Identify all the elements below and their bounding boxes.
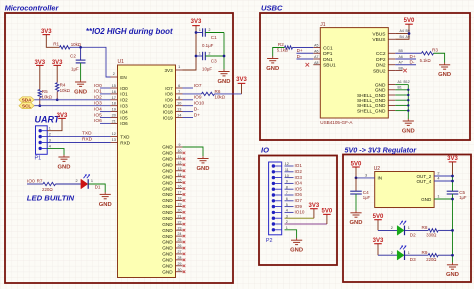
J1 pin SHELL_GND (S3) xyxy=(357,103,395,109)
svg-text:1: 1 xyxy=(199,51,201,55)
svg-text:3V3: 3V3 xyxy=(52,60,63,66)
wire IO8 to R6 xyxy=(183,93,202,95)
svg-text:15: 15 xyxy=(112,84,116,88)
svg-text:A6: A6 xyxy=(399,55,403,59)
wire IO1 xyxy=(100,93,111,95)
U1 pin IO6 (pin 21) xyxy=(111,119,129,126)
no-connect SBU1 xyxy=(306,63,310,67)
J1 pin CC1 (A5) xyxy=(313,44,333,52)
wire R3 to ground xyxy=(434,53,445,63)
wire R9 to gnd rail xyxy=(438,254,452,256)
svg-text:10: 10 xyxy=(178,149,182,153)
svg-text:1: 1 xyxy=(49,127,51,131)
svg-text:IO3: IO3 xyxy=(120,104,128,109)
svg-text:14: 14 xyxy=(177,114,181,118)
svg-text:220Ω: 220Ω xyxy=(42,187,53,192)
svg-text:27: 27 xyxy=(178,250,182,254)
svg-text:P1: P1 xyxy=(35,156,42,162)
wire R6 to 3V3 xyxy=(215,93,242,95)
connector P2 xyxy=(266,162,289,244)
svg-text:13: 13 xyxy=(112,138,116,142)
svg-text:C2: C2 xyxy=(70,54,76,59)
resistor R8 330 xyxy=(428,229,438,232)
svg-text:1: 1 xyxy=(437,195,439,199)
svg-text:IO2: IO2 xyxy=(120,98,128,103)
svg-text:IO19: IO19 xyxy=(163,115,173,120)
svg-text:3V3: 3V3 xyxy=(373,238,384,244)
wire 3V3 rail to U1 pin1 xyxy=(183,26,197,70)
wire IO18 to D- xyxy=(183,111,194,113)
svg-text:14: 14 xyxy=(178,173,182,177)
svg-text:3V3: 3V3 xyxy=(236,77,247,83)
wire P1 pin1 to 3V3 xyxy=(47,118,62,130)
node C1 junction xyxy=(195,31,198,34)
svg-text:23: 23 xyxy=(178,226,182,230)
svg-text:IO0: IO0 xyxy=(27,178,35,184)
svg-text:2: 2 xyxy=(113,72,115,76)
svg-text:IO: IO xyxy=(261,145,269,154)
svg-text:GND: GND xyxy=(162,186,173,191)
svg-text:B9: B9 xyxy=(406,29,410,33)
svg-text:R5: R5 xyxy=(42,89,48,94)
svg-text:IO6: IO6 xyxy=(295,192,303,197)
svg-text:R6: R6 xyxy=(215,89,221,94)
svg-text:21: 21 xyxy=(112,119,116,123)
svg-text:SCL: SCL xyxy=(22,104,31,109)
wire P2 IO5 xyxy=(285,188,294,190)
svg-text:D+: D+ xyxy=(410,54,416,59)
wire R2 to ground xyxy=(273,48,285,57)
wire IO10 xyxy=(183,105,194,107)
svg-text:CC1: CC1 xyxy=(323,45,333,51)
resistor R1 10k xyxy=(60,46,71,49)
svg-text:2: 2 xyxy=(49,133,51,137)
svg-text:D-: D- xyxy=(410,60,415,65)
U1 pin IO2 (pin 17) xyxy=(111,96,129,103)
svg-text:GND: GND xyxy=(162,240,173,245)
U1 pin IO4 (pin 19) xyxy=(111,108,129,115)
svg-text:10: 10 xyxy=(177,102,181,106)
power 3V3 (P1) xyxy=(57,113,68,119)
svg-text:A7: A7 xyxy=(314,55,318,59)
svg-text:17: 17 xyxy=(112,96,116,100)
wire IO0 xyxy=(100,87,111,89)
wire R7 to D1 xyxy=(56,183,81,185)
wire P2 3V3 xyxy=(285,217,314,219)
svg-text:R9: R9 xyxy=(422,250,428,255)
U1 pin 3V3 (pin 1) xyxy=(165,65,183,73)
svg-text:U1: U1 xyxy=(118,59,125,65)
svg-text:18: 18 xyxy=(178,197,182,201)
svg-text:IO5: IO5 xyxy=(120,115,128,120)
U1 pin IO3 (pin 18) xyxy=(111,102,129,109)
svg-text:GND: GND xyxy=(162,180,173,185)
svg-text:Microcontroller: Microcontroller xyxy=(5,3,60,12)
svg-text:GND: GND xyxy=(162,228,173,233)
wire P2 IO7 xyxy=(285,200,294,202)
svg-text:15: 15 xyxy=(178,179,182,183)
svg-text:1: 1 xyxy=(91,179,93,183)
svg-text:GND: GND xyxy=(162,145,173,150)
wire IO5 xyxy=(100,117,111,119)
svg-text:3V3: 3V3 xyxy=(191,19,202,25)
wire IO19 to D+ xyxy=(183,117,194,119)
wire U2 GND (pin 1) xyxy=(434,198,452,200)
wire C2 to ground xyxy=(80,63,82,80)
J1 pin DN2 xyxy=(376,63,395,69)
microcontroller U1 xyxy=(118,59,176,277)
svg-text:IO9: IO9 xyxy=(165,98,173,103)
svg-text:D3: D3 xyxy=(410,257,416,262)
wire U2 OUT_2 (pin 2) xyxy=(434,175,452,177)
svg-text:12: 12 xyxy=(178,161,182,165)
wire P2 IO10 xyxy=(285,211,294,213)
ground GND (R3) xyxy=(438,63,451,79)
J1 pin GND (B1) xyxy=(375,88,395,94)
svg-text:R1: R1 xyxy=(53,41,59,46)
wire 3V3 to R1 xyxy=(46,35,59,48)
svg-text:B1: B1 xyxy=(398,85,402,89)
svg-text:2: 2 xyxy=(209,51,211,55)
section box 5V0 -> 3V3 Regulator xyxy=(343,155,471,283)
svg-text:2: 2 xyxy=(76,179,78,183)
svg-text:IO2: IO2 xyxy=(94,95,102,101)
J1 pin GND (A1) xyxy=(375,82,395,88)
power 3V3 (U2 out) xyxy=(447,156,458,162)
svg-text:5V0 -> 3V3 Regulator: 5V0 -> 3V3 Regulator xyxy=(345,145,418,154)
svg-text:3V3: 3V3 xyxy=(165,68,174,73)
svg-text:R7: R7 xyxy=(37,178,43,183)
svg-text:EN: EN xyxy=(120,75,126,80)
svg-text:SBU1: SBU1 xyxy=(323,63,336,69)
LED D2 xyxy=(397,226,404,236)
svg-text:A8: A8 xyxy=(314,61,318,65)
svg-text:GND: GND xyxy=(421,197,432,202)
svg-text:5V0: 5V0 xyxy=(322,209,333,215)
svg-text:SHELL_GND: SHELL_GND xyxy=(357,108,386,114)
ground GND (C2) xyxy=(74,80,87,96)
resistor R4 10k xyxy=(56,65,58,82)
svg-text:IO4: IO4 xyxy=(295,181,303,186)
svg-text:GND: GND xyxy=(375,88,386,94)
svg-text:10kΩ: 10kΩ xyxy=(215,94,226,99)
svg-text:21: 21 xyxy=(178,214,182,218)
resistor R7 220 xyxy=(27,183,43,185)
node OUT_2 junction xyxy=(451,175,454,178)
ground GND (P2) xyxy=(290,238,303,254)
wire 5V0 to D2 xyxy=(377,220,379,231)
node C3 junction xyxy=(195,55,198,58)
svg-text:B8: B8 xyxy=(399,66,403,70)
svg-text:USBC: USBC xyxy=(261,3,283,12)
power 3V3 (R4) xyxy=(52,60,63,66)
svg-text:GND: GND xyxy=(162,204,173,209)
wire P2 IO1 xyxy=(285,165,294,167)
wire SCL to IO3 xyxy=(34,105,110,107)
svg-text:D+: D+ xyxy=(297,48,303,53)
svg-text:22: 22 xyxy=(178,220,182,224)
usb connector J1 xyxy=(320,22,388,125)
J1 pin DP2 xyxy=(376,57,395,63)
ground GND (C1 C3) xyxy=(218,69,231,85)
svg-text:5V0: 5V0 xyxy=(404,18,415,24)
wire SDA to IO2 xyxy=(34,99,110,101)
svg-text:2: 2 xyxy=(437,172,439,176)
wire 3V3 to D3 xyxy=(377,244,379,256)
svg-text:IO9: IO9 xyxy=(295,204,303,209)
svg-text:30: 30 xyxy=(178,268,182,272)
U1 pin IO19 (pin 14) xyxy=(163,114,183,121)
node OUT_4 junction xyxy=(451,180,454,183)
U1 pin IO18 (pin 13) xyxy=(163,108,183,115)
svg-text:28: 28 xyxy=(178,256,182,260)
svg-text:GND: GND xyxy=(375,82,386,88)
svg-text:SBU2: SBU2 xyxy=(373,68,386,74)
svg-text:A4: A4 xyxy=(400,29,404,33)
svg-text:220Ω: 220Ω xyxy=(426,257,436,262)
svg-text:RXD: RXD xyxy=(82,137,93,143)
svg-text:A7: A7 xyxy=(399,61,403,65)
section box USBC xyxy=(260,13,470,140)
svg-text:GND: GND xyxy=(218,79,231,85)
wire 5V0 to U2 IN (pin 3) xyxy=(355,167,357,178)
wire CC2 to R3 xyxy=(395,52,421,54)
svg-text:D2: D2 xyxy=(410,232,416,237)
node R5/SCL junction xyxy=(38,104,41,107)
svg-text:2: 2 xyxy=(391,226,393,230)
svg-text:GND: GND xyxy=(162,252,173,257)
svg-text:CC2: CC2 xyxy=(376,51,386,57)
svg-text:D+: D+ xyxy=(194,112,200,118)
svg-text:7: 7 xyxy=(178,90,180,94)
svg-text:3: 3 xyxy=(365,174,367,178)
LED D1 xyxy=(81,179,88,189)
wire CC1 to R2 xyxy=(293,47,314,49)
svg-text:DP2: DP2 xyxy=(376,57,386,63)
power 5V0 (P2) xyxy=(322,209,333,215)
svg-text:D-: D- xyxy=(194,106,199,112)
svg-text:GND: GND xyxy=(162,210,173,215)
wire R1 to EN xyxy=(70,47,111,77)
svg-text:330Ω: 330Ω xyxy=(426,232,436,237)
power 3V3 (R6) xyxy=(236,77,247,83)
node C4 junction xyxy=(355,177,358,180)
J1 pin VBUS xyxy=(372,37,395,43)
ground GND (D1) xyxy=(99,192,112,208)
wire P2 IO4 xyxy=(285,182,294,184)
svg-text:GND: GND xyxy=(162,174,173,179)
svg-text:20: 20 xyxy=(178,208,182,212)
svg-text:C3: C3 xyxy=(211,59,217,64)
svg-text:IN: IN xyxy=(378,176,383,181)
svg-text:GND: GND xyxy=(266,66,279,72)
node U2 gnd junction xyxy=(451,198,454,201)
U1 pin IO5 (pin 20) xyxy=(111,114,129,121)
net port SDA xyxy=(19,97,34,103)
regulator U2 xyxy=(374,166,434,207)
svg-text:IO1: IO1 xyxy=(120,92,128,97)
U1 pin IO1 (pin 16) xyxy=(111,90,129,97)
capacitor C1 0.1uF xyxy=(196,32,203,34)
J1 pin DP1 (A6) xyxy=(313,49,332,57)
svg-text:LED BUILTIN: LED BUILTIN xyxy=(27,193,75,202)
svg-text:1μF: 1μF xyxy=(459,195,467,200)
wire 3V3 output rail xyxy=(452,162,454,176)
power 5V0 (D2) xyxy=(373,214,384,220)
svg-text:5V0: 5V0 xyxy=(351,161,362,167)
power 3V3 (U1 supply) xyxy=(191,19,202,26)
svg-text:DN1: DN1 xyxy=(323,57,333,63)
wire TXD xyxy=(47,136,110,138)
svg-text:IO3: IO3 xyxy=(295,175,303,180)
svg-text:GND: GND xyxy=(197,166,210,172)
svg-text:12: 12 xyxy=(112,132,116,136)
svg-text:DP1: DP1 xyxy=(323,51,333,57)
svg-text:GND: GND xyxy=(402,128,415,134)
node R1/C2 junction xyxy=(79,46,82,49)
svg-text:A9: A9 xyxy=(406,35,410,39)
svg-text:4: 4 xyxy=(49,144,51,148)
ground GND (R2) xyxy=(266,56,279,72)
svg-text:R8: R8 xyxy=(422,225,428,230)
svg-text:IO7: IO7 xyxy=(295,198,303,203)
svg-text:GND: GND xyxy=(162,198,173,203)
power 3V3 (D3) xyxy=(373,238,384,244)
power 3V3 (P2) xyxy=(309,203,320,209)
wire IO4 xyxy=(100,111,111,113)
svg-text:A5: A5 xyxy=(314,44,318,48)
wire IO9 xyxy=(183,99,194,101)
LED D3 xyxy=(397,250,404,260)
svg-text:P2: P2 xyxy=(266,238,273,244)
svg-text:GND: GND xyxy=(438,72,451,78)
svg-text:GND: GND xyxy=(162,151,173,156)
svg-text:13: 13 xyxy=(177,108,181,112)
U1 pin IO9 (pin 8) xyxy=(165,96,182,103)
svg-text:RXD: RXD xyxy=(120,140,130,145)
svg-text:IO7: IO7 xyxy=(165,86,173,91)
svg-text:1: 1 xyxy=(408,251,410,255)
J1 pin SBU1 (A8) xyxy=(313,61,336,69)
svg-text:2: 2 xyxy=(391,251,393,255)
U1 pin IO8 (pin 7) xyxy=(165,90,182,97)
svg-text:25: 25 xyxy=(178,238,182,242)
ground GND (J1 shell) xyxy=(402,119,415,135)
J1 pin SHELL_GND (S2) xyxy=(357,98,395,104)
svg-text:C1: C1 xyxy=(211,35,217,40)
svg-text:IO10: IO10 xyxy=(163,104,173,109)
power 3V3 (R1 pullup) xyxy=(41,29,52,35)
node R9 junction xyxy=(451,254,454,257)
svg-text:29: 29 xyxy=(178,262,182,266)
node C3/gnd junction xyxy=(223,55,226,58)
J1 pin VBUS xyxy=(372,31,395,37)
wire P2 IO6 xyxy=(285,194,294,196)
svg-text:IO9: IO9 xyxy=(194,95,202,101)
svg-text:J1: J1 xyxy=(320,22,326,28)
wire P2 IO9 xyxy=(285,206,294,208)
connector P1 xyxy=(35,114,61,161)
capacitor C3 10uF xyxy=(196,55,203,57)
U1 pin IO10 (pin 10) xyxy=(163,102,183,109)
wire P1 pin4 to ground xyxy=(47,148,64,155)
svg-text:GND: GND xyxy=(290,248,303,254)
svg-text:GND: GND xyxy=(74,89,87,95)
capacitor C4 1uF xyxy=(355,178,357,191)
svg-text:VBUS: VBUS xyxy=(372,37,385,43)
resistor R6 10k xyxy=(202,92,215,95)
svg-text:19: 19 xyxy=(112,108,116,112)
wire IO6 xyxy=(100,122,111,124)
ground GND (P1) xyxy=(58,155,71,171)
svg-text:GND: GND xyxy=(162,157,173,162)
U1 pin TXD (pin 12) xyxy=(111,132,131,139)
svg-text:3V3: 3V3 xyxy=(57,113,68,119)
svg-text:3V3: 3V3 xyxy=(309,203,320,209)
capacitor C2 1uF xyxy=(80,47,82,60)
svg-text:8: 8 xyxy=(178,96,180,100)
svg-text:GND: GND xyxy=(162,168,173,173)
svg-text:D1: D1 xyxy=(95,185,101,190)
svg-text:SHELL_GND: SHELL_GND xyxy=(357,93,386,99)
svg-text:B4: B4 xyxy=(400,35,404,39)
svg-text:1: 1 xyxy=(178,65,180,69)
wire D3 to R9 xyxy=(405,254,428,256)
wire C1/C3 to ground xyxy=(223,33,225,70)
U1 pin IO7 (pin 6) xyxy=(165,84,182,91)
ground GND (U1 pin 9) xyxy=(197,156,210,172)
power 5V0 (VBUS) xyxy=(404,18,415,24)
svg-text:SHELL_GND: SHELL_GND xyxy=(357,98,386,104)
wire VBUS to 5V0 xyxy=(395,33,409,35)
svg-text:R2: R2 xyxy=(278,42,284,47)
resistor R3 5.1k xyxy=(422,52,434,55)
svg-text:GND: GND xyxy=(162,246,173,251)
svg-text:3V3: 3V3 xyxy=(34,60,45,66)
wire RXD xyxy=(47,142,110,144)
wire P2 pin1 to ground xyxy=(285,230,297,238)
J1 pin SBU2 xyxy=(373,68,395,74)
capacitor C5 1uF xyxy=(447,190,459,192)
U1 pin IO0 (pin 15) xyxy=(111,84,129,91)
section box IO xyxy=(259,156,337,266)
U1 pin RXD (pin 13) xyxy=(111,138,131,145)
svg-text:10kΩ: 10kΩ xyxy=(42,95,53,100)
svg-text:GND: GND xyxy=(162,234,173,239)
svg-text:IO4: IO4 xyxy=(94,106,102,112)
svg-text:SDA: SDA xyxy=(22,98,32,103)
svg-text:3: 3 xyxy=(49,139,51,143)
svg-text:16: 16 xyxy=(178,185,182,189)
J1 pin CC2 xyxy=(376,51,395,57)
svg-text:B5: B5 xyxy=(399,49,403,53)
J1 pin SHELL_GND (S4) xyxy=(357,108,395,114)
resistor R9 220 xyxy=(428,254,438,257)
svg-text:IO8: IO8 xyxy=(165,92,173,97)
svg-text:IO1: IO1 xyxy=(94,89,102,95)
svg-text:IO10: IO10 xyxy=(295,210,305,215)
wire DN1 xyxy=(297,58,314,60)
svg-text:1μF: 1μF xyxy=(71,66,79,71)
J1 pin SHELL_GND (S1) xyxy=(357,93,395,99)
svg-text:2: 2 xyxy=(209,28,211,32)
wire D2 to R8 xyxy=(405,229,428,231)
svg-text:U2: U2 xyxy=(374,166,381,172)
wire C5 to ground rail xyxy=(452,194,454,263)
svg-text:4: 4 xyxy=(437,177,439,181)
svg-text:IO2: IO2 xyxy=(295,169,303,174)
svg-text:GND: GND xyxy=(350,220,363,226)
